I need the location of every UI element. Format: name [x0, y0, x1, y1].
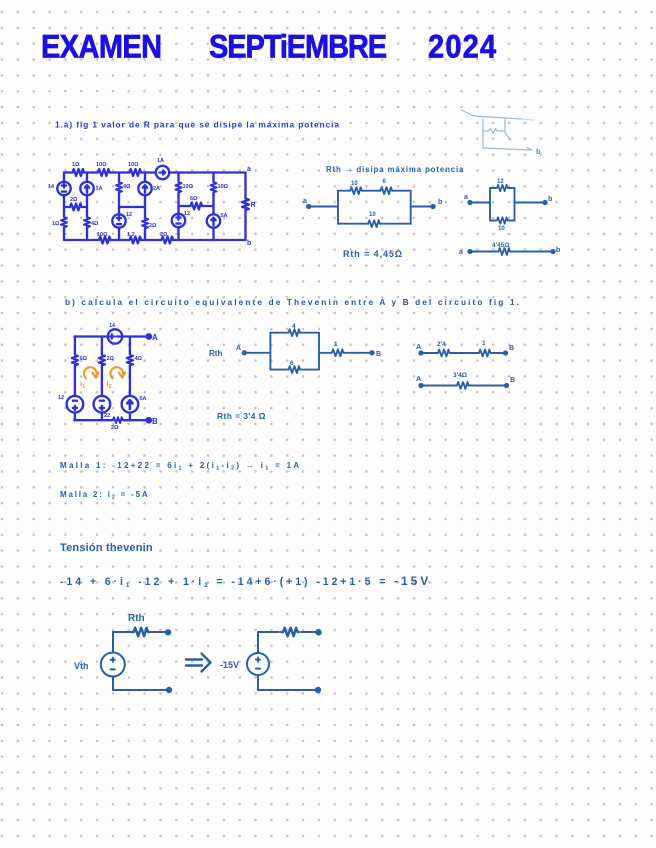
svg-text:1.a) fig 1 valor de R para q: 1.a) fig 1 valor de R para que se disipe… — [55, 120, 340, 130]
svg-text:A: A — [236, 345, 241, 352]
svg-text:4: 4 — [292, 323, 296, 330]
voltage source branch1 — [67, 396, 84, 413]
svg-text:2Ω: 2Ω — [160, 232, 168, 238]
svg-text:12: 12 — [497, 179, 504, 185]
sketch element branch — [505, 119, 511, 140]
svg-text:3'4Ω: 3'4Ω — [453, 372, 467, 379]
wire box right edge — [410, 191, 412, 224]
wire mid link v3-v4 — [119, 206, 145, 208]
wire box bottom edge — [338, 223, 411, 225]
wire branch 6 — [212, 173, 214, 241]
wire box top edge — [270, 332, 319, 334]
svg-text:4Ω: 4Ω — [91, 221, 99, 227]
resistor 1 series — [330, 349, 344, 356]
node A dot — [419, 384, 422, 387]
resistor branch3 — [127, 353, 133, 366]
wire bottom rail — [64, 239, 246, 241]
svg-text:B: B — [376, 351, 381, 358]
svg-text:Rth → disipa máxima potencia: Rth → disipa máxima potencia — [326, 165, 464, 174]
current source I2 — [138, 182, 151, 195]
wire sketch top — [461, 110, 521, 119]
node A dot — [243, 351, 246, 354]
svg-text:a: a — [464, 194, 468, 201]
svg-text:i2: i2 — [107, 379, 112, 390]
wire branch 3 — [129, 337, 131, 421]
resistor Rth — [132, 628, 150, 637]
wire — [421, 385, 506, 387]
svg-text:2Ω: 2Ω — [149, 223, 157, 229]
svg-text:a: a — [247, 166, 251, 173]
svg-text:-14 + 6·i1 -12 + 1·i2 = -14+: -14 + 6·i1 -12 + 1·i2 = -14+6·(+1) -12+1… — [60, 574, 431, 589]
wire top rail — [64, 171, 246, 173]
wire bottom — [113, 689, 167, 691]
resistor 2'4 — [437, 350, 451, 357]
voltage source 14V inline — [108, 329, 122, 343]
resistor mid v1-v2 — [69, 204, 83, 211]
resistor load R — [242, 197, 249, 211]
svg-text:14: 14 — [48, 184, 55, 190]
wire sketch bottom with arrow — [483, 148, 532, 151]
voltage source -15V — [247, 653, 269, 675]
wire box bottom edge — [490, 220, 515, 222]
wire box bottom edge — [270, 369, 319, 371]
svg-text:a: a — [459, 249, 463, 256]
wire right edge — [244, 173, 246, 241]
svg-text:2A: 2A — [153, 186, 160, 192]
resistor branch5 top — [176, 181, 182, 193]
wire top — [258, 631, 316, 633]
node B dot — [147, 418, 151, 422]
resistor branch3 top — [116, 181, 122, 193]
sketch resistor — [484, 129, 504, 134]
wire box right edge — [318, 333, 320, 370]
title word EXAMEN — [41, 29, 161, 66]
svg-text:A: A — [416, 344, 421, 351]
wire branch 2 — [86, 173, 88, 241]
resistor branch1 — [72, 353, 78, 366]
wire left vertical — [112, 632, 114, 690]
wire a lead — [309, 206, 338, 208]
svg-text:12: 12 — [184, 211, 190, 217]
svg-text:6: 6 — [290, 360, 294, 367]
mesh arrow i2 — [110, 367, 124, 378]
wire branch 1 — [63, 173, 65, 241]
wire branch 5 — [177, 173, 179, 241]
resistor bottom 3 — [160, 237, 174, 244]
svg-text:Rth: Rth — [209, 349, 222, 358]
svg-text:4Ω: 4Ω — [135, 356, 143, 362]
svg-text:i1: i1 — [80, 379, 85, 390]
resistor 1 — [478, 350, 492, 357]
resistor 12 top — [495, 185, 508, 191]
wire b lead — [411, 206, 433, 208]
svg-text:1Ω: 1Ω — [52, 221, 60, 227]
node b dot — [431, 205, 434, 208]
voltage source V1 — [57, 182, 70, 195]
wire b lead — [515, 202, 546, 204]
svg-text:B: B — [510, 377, 515, 384]
node a dot — [468, 250, 471, 253]
svg-text:Rth: Rth — [128, 613, 145, 624]
svg-text:1,2: 1,2 — [127, 232, 135, 238]
svg-text:a: a — [303, 198, 307, 205]
resistor top 1 — [71, 169, 85, 176]
svg-text:5A: 5A — [140, 396, 147, 402]
resistor branch6 top — [211, 181, 217, 193]
node b dot — [551, 250, 554, 253]
resistor 6 bottom — [287, 366, 301, 373]
resistor 10 bottom — [495, 217, 508, 223]
node dot top right — [166, 630, 170, 634]
wire box left edge — [269, 333, 271, 370]
resistor mid v5-v6 — [189, 203, 203, 210]
svg-text:b: b — [548, 196, 552, 203]
svg-text:-15V: -15V — [220, 660, 239, 670]
svg-text:14: 14 — [109, 323, 116, 329]
svg-text:2'4: 2'4 — [437, 341, 446, 348]
voltage source Vth — [101, 653, 125, 677]
node a dot — [307, 205, 310, 208]
resistor branch1 lower — [61, 216, 67, 228]
wire right with resistor 1 — [319, 352, 371, 354]
title word SEPTIEMBRE — [209, 29, 386, 66]
svg-text:6: 6 — [383, 179, 387, 185]
voltage source V3 — [172, 214, 185, 227]
node B dot — [370, 351, 373, 354]
wire sketch left vertical — [482, 119, 484, 148]
svg-text:1A: 1A — [96, 186, 103, 192]
wire top — [113, 631, 166, 633]
svg-text:Rth = 4,45Ω: Rth = 4,45Ω — [343, 249, 403, 259]
resistor branch2 — [99, 353, 105, 366]
svg-text:5A: 5A — [221, 213, 228, 219]
svg-text:12: 12 — [126, 212, 132, 218]
node B dot — [504, 351, 507, 354]
svg-text:b) calcula el circuito equival: b) calcula el circuito equivalente de Th… — [65, 297, 521, 307]
svg-text:10Ω: 10Ω — [183, 184, 194, 190]
wire — [421, 352, 505, 354]
node A dot — [419, 351, 422, 354]
wire bottom — [258, 689, 316, 691]
current source I3 — [207, 214, 220, 227]
node dot top right — [316, 630, 320, 634]
resistor bottom rail — [112, 417, 124, 423]
svg-text:10Ω: 10Ω — [97, 232, 108, 238]
node A dot — [147, 334, 151, 338]
svg-text:4'45Ω: 4'45Ω — [492, 242, 510, 249]
svg-text:Malla 1: -12+22 = 6i1 + 2(i1: Malla 1: -12+22 = 6i1 + 2(i1-i2) → i1 = … — [60, 461, 301, 472]
svg-text:b: b — [247, 240, 251, 247]
svg-text:Vth: Vth — [74, 661, 89, 671]
svg-text:2Ω: 2Ω — [70, 197, 78, 203]
mesh arrow i1 — [84, 367, 98, 378]
wire mid link v1-v2 — [64, 206, 87, 208]
svg-text:22: 22 — [104, 413, 110, 419]
current source inline top — [156, 166, 169, 179]
wire mid link v5-v6 — [179, 205, 214, 207]
svg-text:2Ω: 2Ω — [111, 425, 119, 431]
svg-text:B: B — [509, 345, 514, 352]
wire box top edge — [338, 190, 411, 192]
wire branch 1 — [74, 337, 76, 421]
resistor top — [281, 628, 299, 637]
svg-text:10Ω: 10Ω — [128, 162, 139, 168]
svg-text:10: 10 — [351, 181, 358, 187]
current source branch3 — [122, 396, 139, 413]
svg-text:1Ω: 1Ω — [72, 162, 80, 168]
resistor 6 top-right — [379, 187, 393, 194]
svg-text:2Ω: 2Ω — [107, 356, 115, 362]
wire top rail — [74, 335, 148, 337]
svg-text:10Ω: 10Ω — [96, 162, 107, 168]
svg-text:12: 12 — [58, 395, 64, 401]
svg-text:4Ω: 4Ω — [123, 184, 131, 190]
resistor 4 top — [287, 329, 301, 336]
node b dot — [543, 201, 546, 204]
svg-text:6Ω: 6Ω — [190, 196, 198, 202]
svg-text:10Ω: 10Ω — [218, 184, 229, 190]
svg-text:b: b — [556, 247, 560, 254]
resistor bottom 1 — [98, 237, 112, 244]
resistor 10 bottom — [367, 220, 381, 227]
wire box left edge — [337, 191, 339, 224]
svg-text:A: A — [152, 333, 158, 342]
svg-text:R: R — [251, 202, 256, 209]
node dot bottom right — [167, 688, 171, 692]
svg-text:6Ω: 6Ω — [80, 356, 88, 362]
wire box top edge — [490, 187, 515, 189]
svg-text:B: B — [152, 417, 158, 426]
node dot bottom right — [316, 688, 320, 692]
svg-text:b: b — [438, 199, 442, 206]
resistor branch4 lower — [142, 217, 148, 229]
wire a-b — [470, 251, 553, 253]
svg-text:10: 10 — [498, 226, 505, 232]
resistor bottom 2 — [128, 237, 142, 244]
resistor top 2 — [97, 169, 111, 176]
svg-text:Tensión thevenin: Tensión thevenin — [60, 542, 153, 554]
svg-text:1A: 1A — [157, 158, 164, 164]
wire bottom rail — [74, 419, 148, 421]
voltage source branch2 — [94, 396, 111, 413]
svg-text:b: b — [536, 147, 541, 156]
wire branch 4 — [144, 173, 146, 241]
voltage source V2 — [112, 214, 125, 227]
resistor branch2 lower — [84, 216, 90, 228]
wire branch 2 — [101, 337, 103, 421]
resistor 10 top-left — [349, 187, 363, 194]
wire a lead — [470, 202, 490, 204]
current source I1 — [80, 182, 93, 195]
svg-text:Rth = 3'4 Ω: Rth = 3'4 Ω — [217, 411, 266, 421]
node a dot — [468, 201, 471, 204]
svg-text:Malla 2: i2 = -5A: Malla 2: i2 = -5A — [60, 490, 149, 501]
resistor top 3 — [128, 169, 142, 176]
wire A lead — [244, 352, 270, 354]
svg-text:1: 1 — [482, 340, 486, 347]
resistor 3'4 — [456, 382, 470, 389]
svg-text:10: 10 — [369, 212, 376, 218]
wire box right edge — [514, 188, 516, 221]
node B dot — [505, 384, 508, 387]
wire left vertical — [257, 632, 259, 690]
wire branch 3 — [118, 173, 120, 241]
resistor 4'45 — [497, 248, 511, 255]
svg-text:A: A — [416, 376, 421, 383]
title word 2024 — [428, 29, 497, 66]
wire box left edge — [489, 188, 491, 221]
svg-text:1: 1 — [334, 341, 338, 348]
